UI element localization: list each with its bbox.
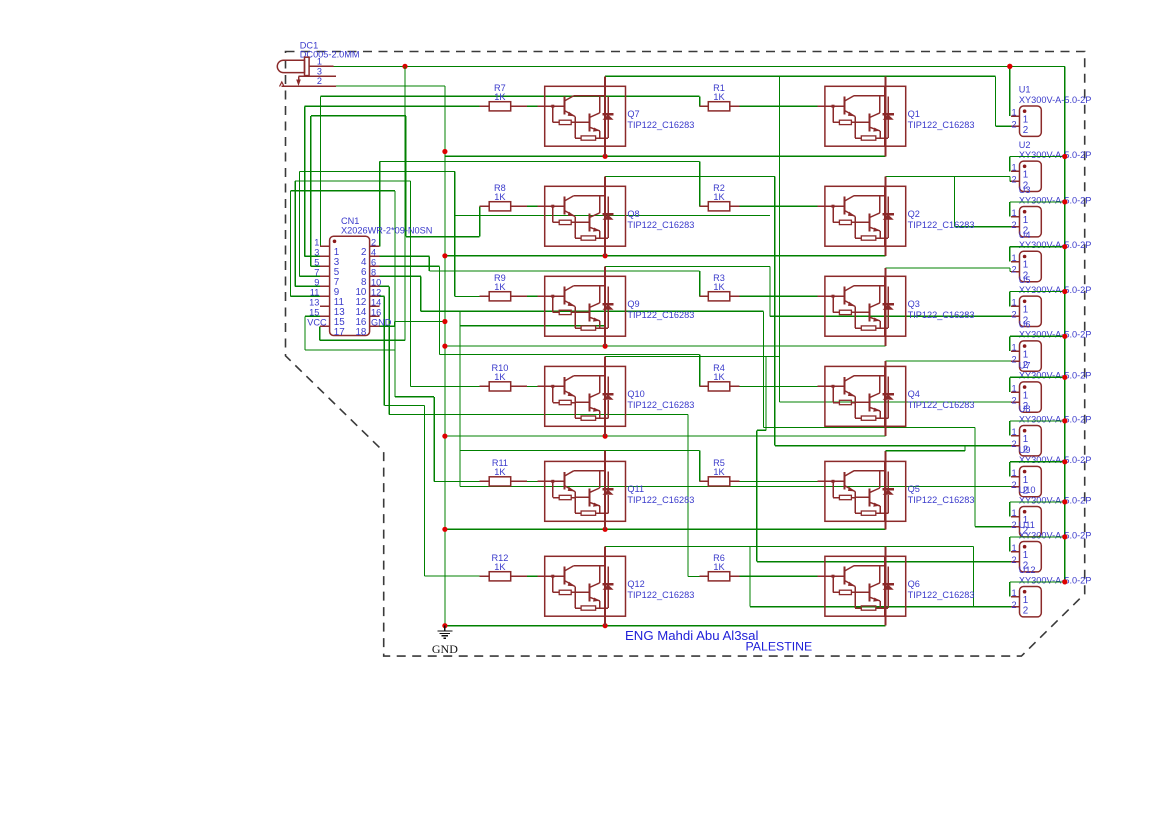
svg-text:1K: 1K [713, 282, 725, 292]
svg-text:Q1: Q1 [908, 109, 920, 119]
svg-text:1K: 1K [494, 562, 506, 572]
svg-text:1: 1 [1011, 588, 1016, 598]
svg-text:TIP122_C16283: TIP122_C16283 [627, 400, 694, 410]
svg-text:2: 2 [1011, 119, 1016, 129]
svg-text:ENG Mahdi Abu Al3sal: ENG Mahdi Abu Al3sal [625, 628, 758, 643]
svg-text:XY300V-A-5.0-2P: XY300V-A-5.0-2P [1019, 575, 1092, 585]
svg-text:XY300V-A-5.0-2P: XY300V-A-5.0-2P [1019, 371, 1092, 381]
svg-text:2: 2 [1011, 395, 1016, 405]
svg-text:TIP122_C16283: TIP122_C16283 [908, 220, 975, 230]
svg-text:1: 1 [1023, 475, 1028, 486]
svg-text:10: 10 [371, 278, 381, 288]
svg-text:XY300V-A-5.0-2P: XY300V-A-5.0-2P [1019, 414, 1092, 424]
svg-text:1: 1 [1011, 343, 1016, 353]
svg-text:2: 2 [1011, 520, 1016, 530]
svg-text:1: 1 [1023, 114, 1028, 125]
svg-text:1K: 1K [713, 562, 725, 572]
svg-text:1: 1 [1023, 595, 1028, 606]
svg-text:TIP122_C16283: TIP122_C16283 [908, 495, 975, 505]
svg-text:Q8: Q8 [627, 209, 639, 219]
svg-text:XY300V-A-5.0-2P: XY300V-A-5.0-2P [1019, 455, 1092, 465]
svg-text:U12: U12 [1019, 565, 1036, 575]
svg-text:XY300V-A-5.0-2P: XY300V-A-5.0-2P [1019, 150, 1092, 160]
svg-text:TIP122_C16283: TIP122_C16283 [908, 590, 975, 600]
svg-text:3: 3 [317, 67, 322, 77]
svg-text:1: 1 [314, 238, 319, 248]
svg-text:7: 7 [314, 268, 319, 278]
svg-text:2: 2 [1011, 354, 1016, 364]
svg-text:18: 18 [355, 327, 366, 338]
svg-text:1: 1 [1011, 468, 1016, 478]
svg-text:2: 2 [1011, 220, 1016, 230]
svg-text:Q2: Q2 [908, 209, 920, 219]
svg-text:1: 1 [1011, 543, 1016, 553]
svg-text:XY300V-A-5.0-2P: XY300V-A-5.0-2P [1019, 530, 1092, 540]
svg-text:XY300V-A-5.0-2P: XY300V-A-5.0-2P [1019, 285, 1092, 295]
svg-text:1: 1 [1011, 108, 1016, 118]
svg-text:8: 8 [371, 268, 376, 278]
svg-text:1: 1 [1011, 298, 1016, 308]
svg-text:1: 1 [317, 57, 322, 67]
svg-text:TIP122_C16283: TIP122_C16283 [627, 220, 694, 230]
svg-text:1: 1 [1011, 208, 1016, 218]
svg-text:2: 2 [371, 238, 376, 248]
svg-text:Q9: Q9 [627, 299, 639, 309]
svg-text:Q6: Q6 [908, 579, 920, 589]
svg-text:1: 1 [1023, 349, 1028, 360]
svg-text:Q4: Q4 [908, 389, 920, 399]
svg-text:TIP122_C16283: TIP122_C16283 [908, 120, 975, 130]
svg-text:2: 2 [317, 76, 322, 86]
svg-text:GND: GND [371, 318, 392, 328]
svg-text:2: 2 [1011, 555, 1016, 565]
svg-text:XY300V-A-5.0-2P: XY300V-A-5.0-2P [1019, 195, 1092, 205]
svg-text:4: 4 [371, 248, 376, 258]
svg-text:2: 2 [1011, 439, 1016, 449]
svg-text:3: 3 [314, 248, 319, 258]
svg-text:1K: 1K [494, 467, 506, 477]
svg-text:13: 13 [309, 298, 319, 308]
svg-text:1: 1 [1023, 215, 1028, 226]
svg-text:6: 6 [371, 258, 376, 268]
svg-text:17: 17 [334, 327, 345, 338]
svg-text:U7: U7 [1019, 361, 1031, 371]
svg-text:2: 2 [1023, 606, 1028, 617]
svg-text:Q10: Q10 [627, 389, 644, 399]
svg-text:Q11: Q11 [627, 484, 644, 494]
svg-text:TIP122_C16283: TIP122_C16283 [627, 495, 694, 505]
svg-text:2: 2 [1011, 600, 1016, 610]
svg-text:Q5: Q5 [908, 484, 920, 494]
svg-text:15: 15 [309, 308, 319, 318]
svg-text:1K: 1K [494, 282, 506, 292]
svg-text:1K: 1K [713, 372, 725, 382]
svg-text:14: 14 [371, 298, 381, 308]
svg-text:1: 1 [1011, 508, 1016, 518]
svg-text:16: 16 [371, 308, 381, 318]
svg-text:TIP122_C16283: TIP122_C16283 [908, 400, 975, 410]
svg-text:U11: U11 [1019, 520, 1035, 530]
svg-text:1K: 1K [713, 192, 725, 202]
svg-text:XY300V-A-5.0-2P: XY300V-A-5.0-2P [1019, 95, 1092, 105]
svg-text:Q7: Q7 [627, 109, 639, 119]
svg-text:1: 1 [1011, 253, 1016, 263]
svg-text:U9: U9 [1019, 445, 1031, 455]
svg-text:TIP122_C16283: TIP122_C16283 [627, 590, 694, 600]
svg-text:TIP122_C16283: TIP122_C16283 [627, 310, 694, 320]
svg-text:1: 1 [1023, 305, 1028, 316]
svg-text:PALESTINE: PALESTINE [746, 640, 813, 654]
svg-text:1: 1 [1023, 550, 1028, 561]
svg-text:U4: U4 [1019, 230, 1031, 240]
svg-text:1: 1 [1023, 170, 1028, 181]
svg-text:X2026WR-2*09-N0SN: X2026WR-2*09-N0SN [341, 226, 432, 236]
svg-text:1K: 1K [713, 92, 725, 102]
svg-text:1: 1 [1023, 434, 1028, 445]
svg-text:XY300V-A-5.0-2P: XY300V-A-5.0-2P [1019, 240, 1092, 250]
svg-text:12: 12 [371, 288, 381, 298]
svg-text:Q3: Q3 [908, 299, 920, 309]
svg-text:TIP122_C16283: TIP122_C16283 [908, 310, 975, 320]
svg-text:U10: U10 [1019, 485, 1036, 495]
svg-text:TIP122_C16283: TIP122_C16283 [627, 120, 694, 130]
svg-text:9: 9 [314, 278, 319, 288]
svg-text:U6: U6 [1019, 320, 1031, 330]
svg-text:2: 2 [1011, 310, 1016, 320]
svg-text:1: 1 [1011, 384, 1016, 394]
svg-text:1: 1 [1023, 260, 1028, 271]
svg-text:Q12: Q12 [627, 579, 644, 589]
svg-text:U8: U8 [1019, 404, 1031, 414]
svg-text:U3: U3 [1019, 185, 1031, 195]
svg-text:VCC: VCC [307, 318, 327, 328]
svg-text:2: 2 [1023, 125, 1028, 136]
svg-text:U2: U2 [1019, 140, 1031, 150]
svg-text:1K: 1K [713, 467, 725, 477]
svg-text:5: 5 [314, 258, 319, 268]
svg-text:11: 11 [310, 288, 320, 298]
svg-text:1K: 1K [494, 372, 506, 382]
svg-text:2: 2 [1011, 175, 1016, 185]
svg-text:1: 1 [1011, 427, 1016, 437]
svg-text:1K: 1K [494, 92, 506, 102]
svg-text:2: 2 [1011, 480, 1016, 490]
svg-text:XY300V-A-5.0-2P: XY300V-A-5.0-2P [1019, 330, 1092, 340]
svg-text:U1: U1 [1019, 85, 1031, 95]
svg-text:U5: U5 [1019, 275, 1031, 285]
svg-text:1: 1 [1011, 163, 1016, 173]
svg-text:1K: 1K [494, 192, 506, 202]
svg-text:XY300V-A-5.0-2P: XY300V-A-5.0-2P [1019, 495, 1092, 505]
svg-text:1: 1 [1023, 390, 1028, 401]
svg-text:2: 2 [1011, 265, 1016, 275]
svg-text:GND: GND [432, 642, 458, 656]
